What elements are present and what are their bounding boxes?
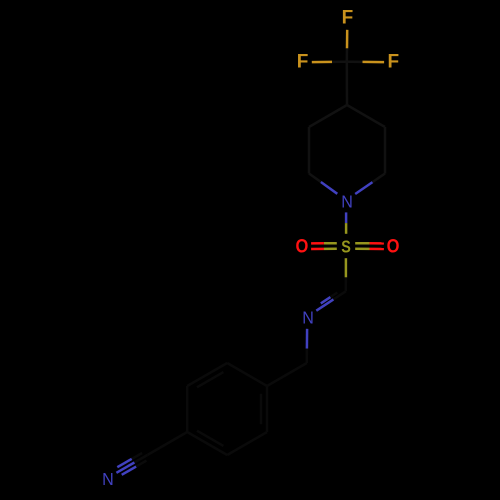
- svg-text:S: S: [341, 237, 351, 257]
- benzene bond C5-C6 (double): [187, 363, 227, 386]
- benzene bond C2-C3: [227, 432, 267, 455]
- piperidine ring bond C6-C5: [384, 127, 387, 174]
- bond S-CH: [345, 258, 348, 277]
- bond N2-CH2: [306, 329, 309, 349]
- piperidine ring bond C5-C4: [347, 105, 385, 127]
- piperidine ring bond N1-C6: [355, 182, 372, 194]
- S=O double bond (right): [355, 248, 369, 251]
- benzene bond C3-C4 (double): [187, 432, 227, 455]
- svg-text:F: F: [297, 52, 309, 73]
- S=O double bond (left): [324, 242, 337, 245]
- piperidine ring bond C3-C2: [308, 127, 311, 174]
- imine C=N double bond: [333, 291, 345, 299]
- svg-text:O: O: [295, 236, 308, 257]
- bond CF3 carbon to piperidine C4: [346, 62, 349, 105]
- bond F1-C (CF3): [346, 30, 349, 49]
- svg-text:N: N: [302, 308, 314, 328]
- bond F3-C (CF3): [363, 61, 385, 64]
- bond CH2 to benzene C1: [267, 363, 307, 386]
- svg-text:N: N: [341, 192, 353, 212]
- piperidine ring bond C2-N1: [309, 174, 321, 183]
- benzene bond C1-C2 (double): [266, 386, 269, 432]
- svg-text:F: F: [387, 52, 399, 73]
- benzene bond C4-C5: [186, 386, 189, 432]
- bond benzene C4 to nitrile carbon: [147, 432, 187, 455]
- svg-text:F: F: [342, 8, 354, 29]
- svg-text:N: N: [102, 470, 114, 490]
- bond F2-C (CF3): [312, 61, 332, 64]
- svg-text:O: O: [387, 236, 400, 257]
- sulfonamide bond N1-S: [345, 212, 348, 223]
- benzene bond C6-C1: [227, 363, 267, 386]
- piperidine ring bond C4-C3: [309, 105, 347, 127]
- nitrile C#N triple bond: [134, 455, 147, 463]
